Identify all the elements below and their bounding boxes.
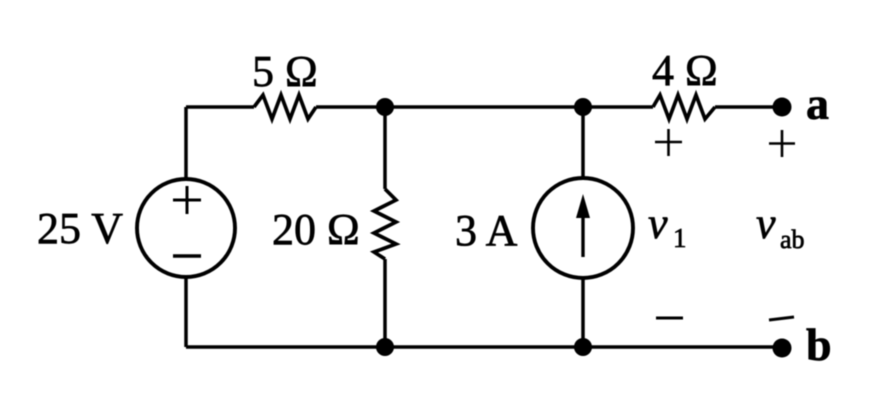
- svg-text:1: 1: [673, 223, 687, 253]
- current source arrow shaft: [581, 212, 584, 257]
- junction node dot bottom-left (20 ohm bottom): [376, 338, 394, 356]
- wire 20-ohm branch upper: [383, 107, 387, 189]
- resistor R 20-ohm vertical zigzag: [374, 189, 396, 259]
- plus sign under 4-ohm (v1 polarity): [655, 129, 682, 156]
- wire bottom rail: [186, 345, 782, 349]
- wire 20-ohm branch lower: [383, 259, 387, 347]
- wire current source branch lower: [581, 277, 585, 347]
- svg-text:v: v: [756, 199, 776, 248]
- svg-text:20 Ω: 20 Ω: [272, 205, 360, 254]
- svg-text:3 A: 3 A: [455, 206, 518, 255]
- voltage source minus sign: [173, 254, 201, 257]
- svg-text:b: b: [806, 319, 832, 370]
- svg-text:25 V: 25 V: [37, 204, 123, 253]
- junction node dot top-right (source top): [574, 98, 592, 116]
- voltage source plus sign: [173, 186, 201, 214]
- wire left vertical top (node to source): [184, 107, 188, 179]
- junction node dot bottom-right (source bottom): [574, 338, 592, 356]
- terminal a dot: [773, 98, 792, 117]
- wire top-left horizontal from source top to 5-ohm resistor: [186, 105, 254, 109]
- minus sign above bottom rail (v1 polarity): [656, 317, 683, 320]
- wire top middle between node 1 and node 2: [316, 105, 653, 109]
- svg-text:4 Ω: 4 Ω: [652, 46, 718, 95]
- wire from 4-ohm to terminal a: [715, 105, 782, 109]
- svg-text:v: v: [648, 199, 668, 248]
- resistor R 4-ohm zigzag: [653, 95, 715, 119]
- svg-text:ab: ab: [780, 225, 805, 254]
- plus sign under terminal a (vab polarity): [769, 130, 795, 157]
- current source arrow head: [576, 194, 590, 218]
- svg-text:5 Ω: 5 Ω: [252, 47, 318, 96]
- wire current source branch upper: [581, 107, 585, 179]
- terminal b dot: [773, 339, 792, 358]
- minus sign above terminal b (vab polarity): [769, 317, 794, 320]
- resistor R 5-ohm zigzag: [254, 95, 316, 119]
- voltage source V 25V circle: [137, 179, 235, 277]
- junction node dot top-left (20 ohm top): [376, 98, 394, 116]
- svg-text:a: a: [806, 78, 829, 129]
- current source I 3A circle: [533, 178, 633, 278]
- wire left vertical bottom (source to bottom rail): [184, 277, 188, 347]
